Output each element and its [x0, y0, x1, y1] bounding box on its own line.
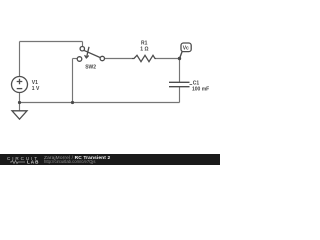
svg-text:1 V: 1 V — [32, 86, 40, 92]
svg-text:http://circuitlab.com/c/e7Qjs: http://circuitlab.com/c/e7Qjs — [44, 159, 95, 164]
svg-text:LAB: LAB — [27, 160, 39, 165]
svg-text:1 Ω: 1 Ω — [140, 46, 148, 52]
svg-text:Vc: Vc — [183, 46, 189, 52]
svg-text:C1: C1 — [193, 80, 200, 86]
svg-text:SW2: SW2 — [85, 65, 96, 71]
svg-text:100 mF: 100 mF — [192, 87, 209, 93]
